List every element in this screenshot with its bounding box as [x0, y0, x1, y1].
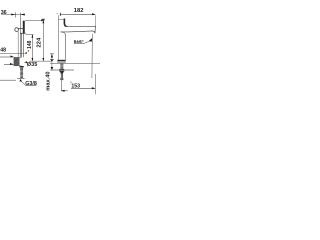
outlet centerline: [91, 34, 94, 78]
threaded rod: [20, 68, 23, 79]
dimension 36 right arrow: [21, 14, 25, 16]
stream angle arrow: [89, 38, 92, 42]
front view base flange: [20, 32, 26, 35]
extension line from body top: [25, 19, 44, 21]
diameter 35 arrow: [24, 61, 27, 63]
48 dimension upper tick: [50, 53, 54, 55]
front view handle knob circle: [15, 28, 19, 32]
threaded stem below deck: [60, 63, 63, 69]
orange dot near 153 text: [70, 82, 71, 84]
svg-text:224: 224: [36, 37, 42, 48]
hose connector flare: [60, 78, 63, 80]
deck bottom line to stem: [14, 65, 22, 67]
lower left arrowhead: [61, 90, 65, 92]
svg-text:6±6°: 6±6°: [74, 39, 84, 45]
48 dimension down flat arrow: [50, 59, 54, 61]
svg-text:148: 148: [27, 40, 33, 49]
handle knob connector tick: [18, 28, 22, 30]
dimension 224 top bar: [42, 18, 45, 21]
hose line down: [60, 80, 62, 91]
spout tip end face: [94, 26, 96, 33]
front view stem left line: [21, 34, 23, 58]
dimension 182 left tick: [59, 13, 61, 16]
svg-text:48: 48: [0, 48, 6, 54]
dimension 148 line: [32, 35, 34, 61]
svg-text:max.40: max.40: [46, 71, 52, 90]
extension line from flange: [26, 34, 34, 36]
side view: head cap line: [58, 18, 64, 20]
G3/8 leader line: [21, 81, 26, 85]
supply tube: [60, 74, 63, 78]
svg-text:182: 182: [74, 8, 84, 14]
deck bottom down arrow: [51, 67, 54, 70]
dimension 153 line: [71, 87, 95, 89]
dimension 148 bottom arrow: [32, 58, 34, 61]
G3/8 underline: [25, 85, 36, 87]
extension tick left of 36: [15, 12, 17, 17]
dimension 224 arrowhead on ext line: [41, 19, 44, 21]
angle text underline: [74, 42, 84, 44]
spout top line: [68, 25, 96, 27]
dimension 224 top arrow: [42, 20, 44, 23]
dimension 153 right arrow: [92, 87, 96, 89]
dimension 36 left arrow: [11, 14, 15, 16]
taper below nut: [60, 72, 64, 74]
diameter 35 leader: [24, 61, 27, 63]
side view body right edge: [64, 34, 66, 59]
deck bottom leader arrow: [10, 63, 14, 65]
G3/8 leader arrow: [19, 79, 22, 82]
deck bottom leader line: [4, 63, 13, 65]
svg-text:G3/8: G3/8: [25, 81, 37, 87]
deck hatch block: [14, 57, 20, 65]
svg-text:36: 36: [1, 10, 7, 16]
orange dot near 148 text: [28, 50, 29, 52]
dimension 182 right arrow: [92, 13, 96, 15]
48 dimension up arrow: [51, 54, 53, 58]
deck top line right view: [50, 62, 100, 64]
side view: body left extension line: [57, 15, 59, 59]
extension line right bottom: [95, 74, 97, 94]
dimension 148 top arrow: [32, 35, 34, 38]
deck top line to stem: [14, 56, 22, 58]
orange dot near diameter text: [28, 62, 29, 63]
48 dimension vline at tap front: [51, 54, 53, 70]
spout body intersection arc: [61, 32, 66, 35]
lower reference line left: [0, 79, 16, 81]
deck top leader line: [0, 56, 14, 58]
side view base flange: [57, 60, 65, 62]
dimension 48 arrow: [24, 52, 27, 54]
base gasket ring: [58, 61, 65, 63]
mounting nut: [59, 69, 64, 71]
hole left edge: [18, 57, 20, 65]
deck bottom line right view: [50, 69, 74, 71]
dimension 224 bottom arrow: [42, 58, 44, 61]
front view body outer profile line: [17, 31, 19, 57]
extension line at spout tip: [95, 15, 97, 27]
orange dot near 182 tick: [57, 13, 58, 14]
front view body dark bar: [23, 21, 25, 33]
side view: neck riser dark bar: [64, 19, 68, 27]
angle leader line: [84, 41, 90, 44]
dimension 224 line: [42, 19, 44, 61]
deck reference line between views: [29, 60, 52, 62]
dimension 36 line: [1, 14, 24, 16]
front view stem right line: [23, 34, 25, 58]
mounting washer: [20, 66, 24, 68]
deck top leader arrow: [10, 55, 13, 57]
lower left arrow dimension line: [61, 90, 67, 92]
rod bottom cap: [17, 77, 24, 79]
spout bottom line: [61, 31, 95, 33]
dimension 182 line: [60, 13, 95, 15]
dimension 48 line: [0, 53, 24, 55]
front view body left edge line: [20, 13, 22, 58]
